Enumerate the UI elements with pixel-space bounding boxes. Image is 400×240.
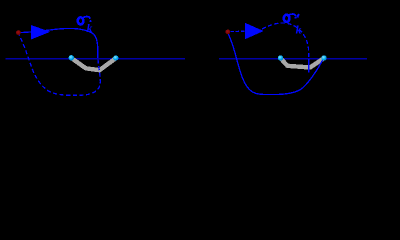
pole red dot right: [225, 30, 230, 35]
contour sigma'_k dashed lead from pole to arrow: [231, 30, 247, 32]
branch point left-left (cyan dot): [69, 55, 74, 60]
branch point left-right (cyan dot): [113, 55, 118, 60]
label sigma_k glyph top bar: [83, 17, 90, 19]
svg-text:k: k: [87, 23, 93, 35]
contour sigma_k solid part (above axis): [21, 28, 98, 57]
contour sigma'_k solid part (deformed below axis): [228, 33, 323, 94]
branch point right-right (cyan dot): [321, 55, 326, 60]
branch point right-left (cyan dot): [278, 55, 283, 60]
branch cut left (gray band): [71, 58, 116, 70]
contour sigma'_k solid stub through the cut: [308, 59, 310, 73]
label sigma_k glyph bowl: [78, 17, 84, 24]
label sigma'_k glyph bowl: [284, 15, 290, 22]
svg-text:k: k: [296, 25, 302, 37]
real axis left: [6, 58, 186, 60]
arrow head on sigma_k: [31, 25, 50, 40]
label sigma'_k prime: [297, 14, 298, 18]
arrow head on sigma'_k: [245, 23, 264, 40]
contour sigma_k dashed part (below axis, second sheet): [19, 35, 100, 96]
real axis right: [219, 58, 367, 60]
label sigma'_k glyph bar terminal ball: [295, 17, 297, 19]
label sigma'_k glyph top bar: [289, 14, 295, 16]
pole red dot left: [16, 30, 21, 35]
branch cut right (gray band): [281, 58, 325, 67]
contour sigma'_k dashed hump (second sheet): [262, 23, 309, 57]
label sigma_k glyph bar terminal ball: [89, 20, 91, 22]
